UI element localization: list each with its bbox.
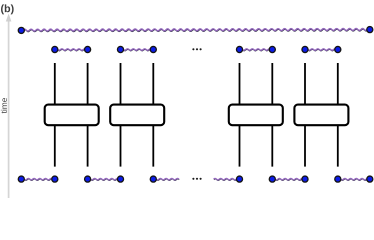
bond squiggle upper pair 3 xyxy=(240,49,275,51)
qubit wire w5 (x=239.5) xyxy=(239,63,241,167)
qubit wire w8 (x=337.8) xyxy=(337,63,339,167)
bond squiggle lower stub (right of ellipsis) xyxy=(214,178,240,180)
qubit wire w2 (x=87.6) xyxy=(87,63,89,167)
qubit dot lower row 8 xyxy=(302,176,308,182)
two-qubit gate U3 xyxy=(229,105,283,126)
long-range bond squiggle (top pair) xyxy=(23,28,368,31)
qubit dot lower row 1 xyxy=(18,176,24,182)
time axis line xyxy=(8,19,10,198)
time axis label xyxy=(1,98,7,113)
bond squiggle lower pair 3 xyxy=(272,178,304,180)
qubit dot lower row 7 xyxy=(269,176,275,182)
ellipsis lower row xyxy=(192,178,201,180)
qubit dot lower row 3 xyxy=(85,176,91,182)
bond squiggle lower pair 2 xyxy=(88,178,122,180)
qubit dot lower row 5 xyxy=(150,176,156,182)
qubit dot lower row 2 xyxy=(52,176,58,182)
qubit dot top row 2 xyxy=(367,27,373,33)
qubit wire w4 (x=153.3) xyxy=(152,63,154,167)
bond squiggle upper pair 4 xyxy=(305,49,340,51)
qubit dot lower row 4 xyxy=(117,176,123,182)
bond squiggle upper pair 1 xyxy=(55,49,89,51)
qubit dot upper row 4 xyxy=(150,46,156,52)
time axis arrowhead xyxy=(6,14,12,22)
bond squiggle lower stub (left of ellipsis) xyxy=(153,178,179,180)
qubit wire w1 (x=54.8) xyxy=(54,63,56,167)
qubit wire w3 (x=120.5) xyxy=(120,63,122,167)
ellipsis upper row xyxy=(192,48,201,50)
bond squiggle lower pair 1 xyxy=(21,178,55,180)
qubit dot upper row 6 xyxy=(269,46,275,52)
qubit dot lower row 10 xyxy=(367,176,373,182)
qubit dot upper row 1 xyxy=(52,46,58,52)
bond squiggle upper pair 2 xyxy=(121,49,156,51)
label (b) xyxy=(1,4,14,14)
qubit dot lower row 9 xyxy=(335,176,341,182)
two-qubit gate U1 xyxy=(45,105,99,126)
two-qubit gate U2 xyxy=(110,105,164,126)
two-qubit gate U4 xyxy=(294,105,348,126)
qubit dot upper row 2 xyxy=(85,46,91,52)
qubit dot lower row 6 xyxy=(236,176,242,182)
bond squiggle lower pair 4 xyxy=(338,178,370,180)
qubit dot upper row 3 xyxy=(117,46,123,52)
qubit wire w6 (x=272.3) xyxy=(271,63,273,167)
qubit dot upper row 5 xyxy=(236,46,242,52)
qubit dot top row 1 xyxy=(18,27,24,33)
qubit wire w7 (x=305.0) xyxy=(304,63,306,167)
qubit dot upper row 8 xyxy=(335,46,341,52)
qubit dot upper row 7 xyxy=(302,46,308,52)
